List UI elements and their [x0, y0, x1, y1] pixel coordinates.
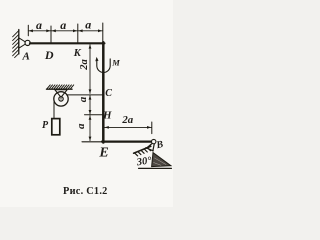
svg-text:M: M: [111, 58, 120, 68]
svg-text:K: K: [73, 48, 82, 59]
svg-text:C: C: [105, 88, 112, 99]
svg-text:Рис. С1.2: Рис. С1.2: [63, 186, 108, 197]
svg-text:D: D: [44, 48, 54, 62]
svg-text:2a: 2a: [79, 59, 90, 71]
svg-text:a: a: [85, 17, 91, 31]
svg-text:30°: 30°: [135, 155, 153, 168]
svg-text:H: H: [102, 111, 112, 122]
svg-text:a: a: [75, 123, 87, 129]
svg-text:E: E: [98, 146, 108, 161]
svg-text:a: a: [36, 18, 42, 32]
svg-text:2a: 2a: [121, 114, 133, 126]
svg-text:a: a: [60, 18, 66, 32]
svg-text:a: a: [77, 96, 89, 102]
svg-text:P: P: [42, 120, 49, 131]
svg-text:A: A: [22, 51, 30, 63]
